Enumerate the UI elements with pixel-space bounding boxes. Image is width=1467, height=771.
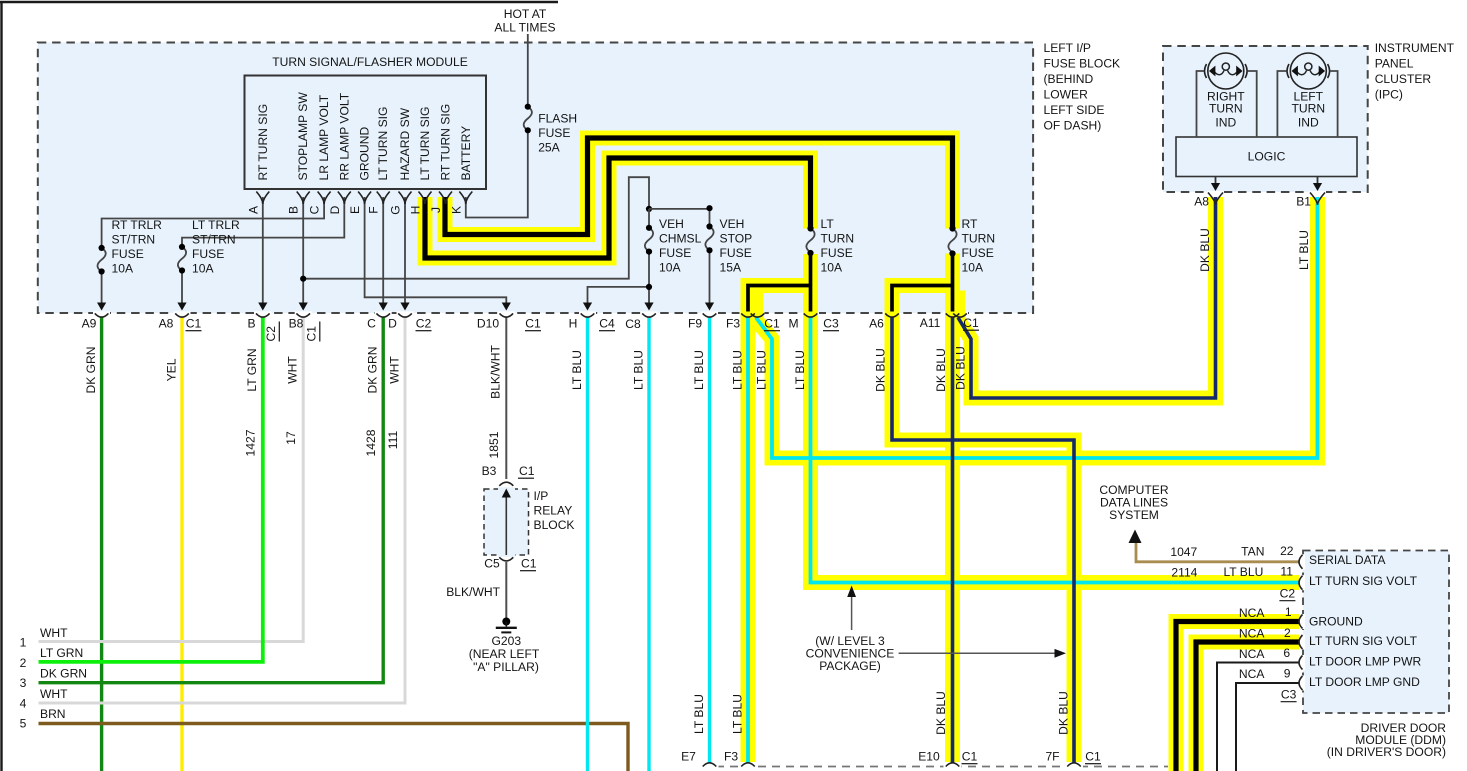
svg-text:A9: A9 — [82, 317, 97, 331]
connector D10 — [500, 313, 514, 317]
wire: black core RT branch to A6 — [892, 286, 953, 312]
module pin letters — [246, 205, 463, 215]
svg-text:1851: 1851 — [487, 431, 501, 458]
svg-text:C2: C2 — [1280, 587, 1296, 601]
bottom connector gaps — [701, 764, 719, 768]
svg-text:BRN: BRN — [40, 707, 66, 721]
svg-text:DK GRN: DK GRN — [366, 346, 380, 393]
svg-text:RT TRLR: RT TRLR — [112, 218, 163, 232]
wire: black core LT branch to F3 — [748, 286, 811, 312]
node: junction above VEH STOP fuse — [706, 205, 712, 211]
svg-text:IND: IND — [1298, 116, 1319, 130]
wire: BRN circuit 5 — [39, 724, 629, 771]
wire: pin F down to connector C — [382, 197, 384, 309]
wire: black core pin J to RT TURN fuse — [445, 138, 953, 235]
wire: BLK/WHT from D10 to relay block — [505, 317, 507, 479]
svg-text:LR LAMP VOLT: LR LAMP VOLT — [317, 94, 331, 180]
svg-text:BLK/WHT: BLK/WHT — [489, 345, 503, 399]
svg-text:15A: 15A — [720, 261, 742, 275]
svg-text:B3: B3 — [482, 464, 497, 478]
svg-text:DK GRN: DK GRN — [40, 667, 87, 681]
node: junction above VEH CHMSL fuse — [646, 206, 652, 212]
arrow into A9 — [97, 303, 106, 311]
svg-text:C3: C3 — [1281, 688, 1297, 702]
svg-text:C1: C1 — [764, 317, 780, 331]
frame left line — [0, 1, 2, 771]
svg-text:DK BLU: DK BLU — [1056, 691, 1070, 735]
svg-text:DK BLU: DK BLU — [1198, 228, 1212, 272]
svg-text:DK BLU: DK BLU — [953, 346, 967, 390]
wire: CHMSL fuse output branch to connectors H and C8 — [588, 287, 650, 309]
svg-text:LT: LT — [821, 217, 835, 231]
svg-text:NCA: NCA — [1239, 667, 1265, 681]
svg-text:LT DOOR LMP PWR: LT DOOR LMP PWR — [1309, 655, 1421, 669]
fuse VEH STOP FUSE 15A — [705, 227, 713, 310]
svg-text:H: H — [569, 317, 578, 331]
left I/P fuse block box — [38, 43, 1033, 314]
svg-text:FLASH: FLASH — [538, 112, 577, 126]
svg-text:INSTRUMENT: INSTRUMENT — [1375, 41, 1455, 55]
svg-text:C1: C1 — [525, 317, 541, 331]
highlight band: LT turn circuit from pin H to LT TURN fuse — [425, 158, 811, 258]
svg-text:LT TRLR: LT TRLR — [192, 218, 240, 232]
wire: black core pin H to LT TURN fuse — [425, 158, 811, 258]
svg-text:STOP: STOP — [720, 232, 753, 246]
svg-text:TURN: TURN — [1209, 102, 1243, 116]
wire: black core LT fuse to M connector — [809, 253, 813, 312]
svg-text:ST/TRN: ST/TRN — [112, 233, 156, 247]
svg-text:FUSE BLOCK: FUSE BLOCK — [1044, 57, 1121, 71]
wire: pin D to LT TRLR fuse — [182, 197, 344, 246]
svg-text:10A: 10A — [821, 261, 843, 275]
svg-text:VEH: VEH — [720, 217, 745, 231]
svg-text:CLUSTER: CLUSTER — [1375, 72, 1432, 86]
svg-text:LEFT SIDE: LEFT SIDE — [1044, 103, 1105, 117]
svg-text:17: 17 — [284, 431, 298, 445]
svg-text:A8: A8 — [1194, 195, 1209, 209]
wire: pin C to RT TRLR fuse — [102, 197, 325, 247]
svg-text:C3: C3 — [823, 317, 839, 331]
wire: pin A down to connector B — [262, 197, 264, 309]
svg-text:B1: B1 — [1296, 195, 1311, 209]
svg-text:F3: F3 — [726, 317, 740, 331]
svg-text:LOGIC: LOGIC — [1248, 150, 1286, 164]
svg-text:WHT: WHT — [387, 356, 401, 384]
I/P relay block box — [484, 489, 529, 555]
svg-text:RELAY: RELAY — [534, 504, 573, 518]
svg-text:WHT: WHT — [286, 356, 300, 384]
relay block pass-through arrow — [505, 494, 507, 555]
svg-text:NCA: NCA — [1239, 627, 1265, 641]
arrow into C8 — [644, 303, 653, 311]
svg-text:LT BLU: LT BLU — [793, 350, 807, 390]
connector H — [581, 313, 595, 317]
connector A6 — [885, 313, 899, 317]
svg-text:LT TURN SIG VOLT: LT TURN SIG VOLT — [1309, 574, 1418, 588]
wire: DK GRN from A9 — [100, 317, 103, 771]
svg-text:LT BLU: LT BLU — [730, 694, 744, 734]
svg-text:C4: C4 — [599, 317, 615, 331]
svg-text:2114: 2114 — [1171, 566, 1197, 580]
wire: black core RT fuse to A11 connector — [951, 254, 955, 312]
wire: LT BLU core F3 to bottom F3 — [746, 318, 750, 764]
wire: NCA thin DDM pin 9 — [1236, 683, 1299, 771]
connector IPC A8 — [1208, 193, 1223, 206]
wire: YEL from A8 — [180, 317, 183, 771]
svg-text:FUSE: FUSE — [821, 246, 853, 260]
wire: TAN serial data to computer data lines — [1136, 542, 1299, 562]
svg-text:RT TURN SIG: RT TURN SIG — [439, 104, 453, 181]
connector A8 — [175, 313, 189, 317]
svg-text:NCA: NCA — [1239, 606, 1265, 620]
wire: DK GRN circuit 3 from C — [39, 317, 384, 683]
svg-text:7F: 7F — [1045, 750, 1059, 764]
fuse LT TRLR ST/TRN FUSE 10A — [178, 247, 186, 309]
svg-text:FUSE: FUSE — [962, 246, 994, 260]
arrow IPC B1 — [1317, 177, 1319, 187]
wire: DK BLU core A6 to 7F — [892, 318, 1074, 764]
svg-text:D: D — [328, 205, 342, 214]
IPC pin connector gaps — [1207, 191, 1224, 194]
svg-text:SYSTEM: SYSTEM — [1109, 508, 1159, 522]
connector B8 — [296, 313, 310, 317]
svg-text:25A: 25A — [538, 141, 560, 155]
svg-text:ALL TIMES: ALL TIMES — [494, 21, 555, 35]
svg-text:WHT: WHT — [40, 626, 68, 640]
connector A11 — [946, 313, 960, 317]
svg-text:C1: C1 — [519, 464, 535, 478]
module pin connectors A-K — [256, 192, 472, 205]
svg-text:BLK/WHT: BLK/WHT — [446, 585, 500, 599]
connector DDM pin 2 — [1299, 635, 1303, 649]
svg-text:LT BLU: LT BLU — [692, 350, 706, 390]
connector D — [398, 313, 412, 317]
svg-text:(IPC): (IPC) — [1375, 88, 1403, 102]
wire: NCA thin DDM pin 6 — [1217, 663, 1299, 771]
svg-text:C1: C1 — [1085, 750, 1101, 764]
highlight band: LT TURN fuse output through M to DDM pin 11 — [811, 254, 1300, 583]
wire: LT BLU core M connector to DDM pin 11 — [811, 318, 1300, 583]
svg-text:RT: RT — [962, 217, 979, 231]
connector F3 — [741, 313, 755, 317]
svg-text:FUSE: FUSE — [112, 247, 144, 261]
svg-text:A: A — [246, 205, 260, 214]
svg-text:C: C — [367, 317, 376, 331]
connector DDM pin 1 — [1299, 615, 1303, 629]
svg-text:ST/TRN: ST/TRN — [192, 233, 236, 247]
arrow annotation w/ level 3 right — [899, 652, 1056, 654]
svg-text:LT GRN: LT GRN — [245, 348, 259, 391]
highlight band: LT C1 spur to IPC B1 — [748, 197, 1318, 458]
svg-text:C2: C2 — [416, 317, 432, 331]
svg-text:C2: C2 — [264, 326, 278, 342]
arrow into computer data lines system — [1129, 530, 1142, 544]
svg-text:E7: E7 — [681, 750, 696, 764]
svg-text:D: D — [388, 317, 397, 331]
svg-text:LT GRN: LT GRN — [40, 646, 83, 660]
connector C — [376, 313, 390, 317]
svg-text:2: 2 — [1284, 626, 1291, 640]
svg-text:BLOCK: BLOCK — [534, 518, 575, 532]
svg-text:B: B — [287, 206, 301, 214]
svg-text:(BEHIND: (BEHIND — [1044, 72, 1094, 86]
arrow into C — [379, 303, 388, 311]
connector DDM pin 22 — [1299, 555, 1303, 569]
svg-text:2: 2 — [20, 656, 27, 670]
svg-text:B: B — [247, 317, 255, 331]
svg-text:GROUND: GROUND — [358, 126, 372, 180]
highlight band: RT C1 spur to IPC A8 — [953, 197, 1216, 398]
svg-text:SERIAL DATA: SERIAL DATA — [1309, 553, 1386, 567]
svg-text:"A" PILLAR): "A" PILLAR) — [473, 660, 539, 674]
svg-text:C1: C1 — [304, 326, 318, 342]
svg-text:HAZARD SW: HAZARD SW — [398, 107, 412, 180]
wire color labels row 1 — [84, 228, 1311, 399]
svg-text:LT TURN SIG: LT TURN SIG — [418, 107, 432, 181]
svg-text:C1: C1 — [186, 317, 202, 331]
connector E10 — [946, 763, 960, 767]
svg-text:LOWER: LOWER — [1044, 88, 1089, 102]
instrument panel cluster box — [1163, 46, 1368, 192]
highlight band: LT branch to F3 — [748, 286, 811, 763]
IPC logic box — [1176, 137, 1357, 177]
relay block border gaps — [498, 487, 515, 491]
svg-text:NCA: NCA — [1239, 647, 1265, 661]
svg-text:WHT: WHT — [40, 687, 68, 701]
connector DDM pin 11 — [1299, 576, 1303, 590]
highlight band: RT branch to A6 and 7F — [892, 286, 1074, 763]
svg-text:E: E — [348, 206, 362, 214]
svg-text:1: 1 — [20, 636, 27, 650]
svg-text:LT BLU: LT BLU — [1297, 230, 1311, 270]
svg-text:C5: C5 — [484, 557, 500, 571]
svg-text:1047: 1047 — [1170, 545, 1197, 559]
highlight band: RT TURN fuse output to A11 and E10 — [945, 254, 960, 763]
fuse RT TRLR ST/TRN FUSE 10A — [97, 248, 105, 309]
svg-text:HOT AT: HOT AT — [504, 7, 547, 21]
arrow IPC A8 — [1215, 177, 1217, 187]
connector M — [804, 313, 818, 317]
driver door module box — [1303, 551, 1449, 714]
svg-text:F3: F3 — [724, 750, 738, 764]
connector IPC B1 — [1310, 193, 1325, 206]
wire: DK BLU core A11 to E10 — [951, 318, 955, 764]
highlight band: DDM NCA lt turn sig volt wire pin 2 — [1196, 642, 1299, 771]
svg-text:11: 11 — [1280, 565, 1293, 579]
wire: LT BLU core C1 to IPC B1 — [756, 197, 1318, 458]
svg-text:G: G — [389, 205, 403, 214]
svg-text:STOPLAMP SW: STOPLAMP SW — [296, 92, 310, 181]
svg-text:LT BLU: LT BLU — [692, 694, 706, 734]
connector C1 left — [751, 313, 765, 317]
svg-text:3: 3 — [20, 676, 27, 690]
svg-text:C1: C1 — [963, 316, 979, 330]
wire: feed to VEH STOP fuse — [649, 209, 710, 226]
svg-text:LT BLU: LT BLU — [754, 350, 768, 390]
svg-text:CHMSL: CHMSL — [659, 232, 702, 246]
svg-text:B8: B8 — [289, 317, 304, 331]
svg-text:OF DASH): OF DASH) — [1044, 119, 1102, 133]
arrow into D — [400, 303, 409, 311]
svg-text:VEH: VEH — [659, 217, 684, 231]
svg-text:M: M — [788, 317, 798, 331]
wire number labels — [244, 429, 502, 458]
svg-text:GROUND: GROUND — [1309, 615, 1363, 629]
wire: LT GRN circuit 2 from B — [39, 317, 263, 662]
svg-text:TAN: TAN — [1241, 545, 1264, 559]
wire: WHT circuit 1 from B8 — [39, 317, 304, 642]
svg-text:(IN DRIVER'S DOOR): (IN DRIVER'S DOOR) — [1327, 745, 1446, 759]
svg-text:LT BLU: LT BLU — [730, 350, 744, 390]
svg-text:10A: 10A — [112, 262, 134, 276]
svg-text:DK BLU: DK BLU — [873, 348, 887, 392]
connector gaps on fuse block bottom edge — [93, 311, 968, 316]
svg-text:(NEAR LEFT: (NEAR LEFT — [469, 647, 540, 661]
fuse RT TURN FUSE 10A — [948, 229, 956, 253]
wire: pin G down to connector D — [404, 197, 406, 309]
wire color labels row 2 — [692, 691, 1071, 735]
svg-text:H: H — [409, 206, 423, 215]
svg-text:DK BLU: DK BLU — [934, 691, 948, 735]
svg-text:LEFT I/P: LEFT I/P — [1044, 41, 1092, 55]
fuse FLASH FUSE 25A — [524, 107, 532, 131]
connector DDM pin 6 — [1299, 656, 1303, 670]
lamp RIGHT TURN IND leads — [1197, 71, 1257, 137]
svg-text:C: C — [308, 205, 322, 214]
ground G203 — [502, 618, 510, 626]
connector C5 — [499, 557, 513, 561]
connector DDM pin 9 — [1299, 676, 1303, 690]
svg-text:10A: 10A — [659, 261, 681, 275]
wire: pin E ground to D10 — [365, 197, 507, 309]
fuse LT TURN FUSE 10A — [806, 229, 814, 253]
svg-text:TURN: TURN — [821, 232, 855, 246]
frame top line — [0, 1, 558, 3]
fuse VEH CHMSL FUSE 10A — [645, 209, 653, 287]
svg-text:RR LAMP VOLT: RR LAMP VOLT — [337, 92, 351, 180]
wire: BLK/WHT from relay block C5 to G203 — [505, 562, 507, 618]
svg-text:D10: D10 — [477, 317, 499, 331]
svg-text:A6: A6 — [869, 317, 884, 331]
svg-text:FUSE: FUSE — [720, 246, 752, 260]
wire: WHT circuit 4 from D — [39, 317, 406, 703]
connector A9 — [95, 313, 109, 317]
arrow into F9 — [705, 303, 714, 311]
connector 7F — [1067, 763, 1081, 767]
arrow into H — [583, 303, 592, 311]
svg-text:4: 4 — [20, 696, 27, 710]
DDM connector gaps — [1302, 554, 1306, 690]
svg-text:E10: E10 — [918, 750, 940, 764]
svg-text:1427: 1427 — [244, 429, 258, 456]
svg-text:22: 22 — [1280, 544, 1294, 558]
svg-text:LT BLU: LT BLU — [570, 350, 584, 390]
svg-text:IND: IND — [1215, 116, 1236, 130]
connector F3 bottom — [741, 763, 755, 767]
bottom dashed line (rear lamps harness box) — [702, 766, 1168, 768]
svg-text:LT DOOR LMP GND: LT DOOR LMP GND — [1309, 675, 1420, 689]
turn signal/flasher module box — [245, 76, 487, 190]
arrow annotation w/ level 3 up — [851, 593, 853, 630]
connector E7 — [703, 763, 717, 767]
arrow into D10 — [502, 303, 511, 311]
svg-text:F9: F9 — [688, 317, 702, 331]
svg-text:PANEL: PANEL — [1375, 57, 1414, 71]
svg-text:C1: C1 — [521, 557, 537, 571]
svg-text:1: 1 — [1285, 605, 1292, 619]
lamp LEFT TURN IND leads — [1277, 71, 1337, 137]
svg-text:LT TURN SIG VOLT: LT TURN SIG VOLT — [1309, 634, 1418, 648]
svg-text:5: 5 — [20, 717, 27, 731]
lamp LEFT TURN IND — [1290, 53, 1326, 89]
svg-text:TURN: TURN — [1292, 102, 1326, 116]
svg-text:10A: 10A — [962, 261, 984, 275]
svg-text:RT TURN SIG: RT TURN SIG — [256, 104, 270, 181]
svg-text:BATTERY: BATTERY — [459, 126, 473, 181]
svg-text:F: F — [367, 206, 381, 213]
connector B3 — [499, 482, 513, 486]
svg-text:FUSE: FUSE — [659, 246, 691, 260]
svg-text:PACKAGE): PACKAGE) — [819, 659, 881, 673]
svg-text:DK BLU: DK BLU — [934, 348, 948, 392]
connector B — [256, 313, 270, 317]
svg-text:FUSE: FUSE — [192, 247, 224, 261]
wire: pin B down to connector B8 with branch to CHMSL/STOP fuses — [303, 177, 649, 309]
svg-text:DK GRN: DK GRN — [84, 346, 98, 393]
node: junction on pin B wire — [300, 276, 306, 282]
svg-text:A8: A8 — [159, 317, 174, 331]
connector C1 right — [953, 313, 967, 317]
wire: NCA black core DDM pin 2 — [1196, 642, 1299, 771]
svg-text:I/P: I/P — [534, 489, 549, 503]
svg-text:LT BLU: LT BLU — [631, 350, 645, 390]
svg-text:10A: 10A — [192, 262, 214, 276]
highlight band: DDM NCA ground wire pin 1 — [1176, 622, 1299, 771]
svg-text:1428: 1428 — [364, 429, 378, 456]
svg-text:G203: G203 — [492, 634, 522, 648]
wire: DK BLU core C1 to IPC A8 — [958, 197, 1216, 398]
wire: battery feed from HOT AT ALL TIMES to flash fuse and pin K — [466, 34, 528, 218]
svg-text:9: 9 — [1284, 666, 1291, 680]
lamp RIGHT TURN IND — [1208, 53, 1244, 89]
svg-text:LT BLU: LT BLU — [1223, 565, 1263, 579]
wire: NCA black core DDM pin 1 — [1176, 622, 1299, 771]
svg-text:6: 6 — [1283, 646, 1290, 660]
svg-text:C8: C8 — [625, 317, 641, 331]
svg-text:TURN SIGNAL/FLASHER MODULE: TURN SIGNAL/FLASHER MODULE — [272, 55, 468, 69]
wire: LT BLU from H — [586, 317, 589, 771]
svg-text:C1: C1 — [962, 750, 978, 764]
svg-text:A11: A11 — [920, 316, 941, 330]
node: junction below CHMSL fuse — [646, 284, 652, 290]
highlight band: RT turn circuit from pin J to RT TURN fuse — [445, 138, 953, 235]
connector C8 — [642, 313, 656, 317]
svg-text:LT TURN SIG: LT TURN SIG — [376, 107, 390, 181]
arrow into A8 — [177, 303, 186, 311]
module pin function labels — [256, 92, 473, 181]
svg-text:111: 111 — [386, 431, 400, 450]
arrow into B — [258, 303, 267, 311]
wire: LT BLU from C8 — [647, 317, 650, 771]
svg-text:YEL: YEL — [164, 358, 178, 381]
svg-text:TURN: TURN — [962, 232, 996, 246]
connector F9 — [703, 313, 717, 317]
wire: LT BLU from F9 to E7 — [708, 317, 711, 763]
svg-text:J: J — [429, 207, 443, 213]
svg-text:FUSE: FUSE — [538, 126, 570, 140]
svg-text:K: K — [449, 206, 463, 214]
arrow into B8 — [299, 303, 308, 311]
